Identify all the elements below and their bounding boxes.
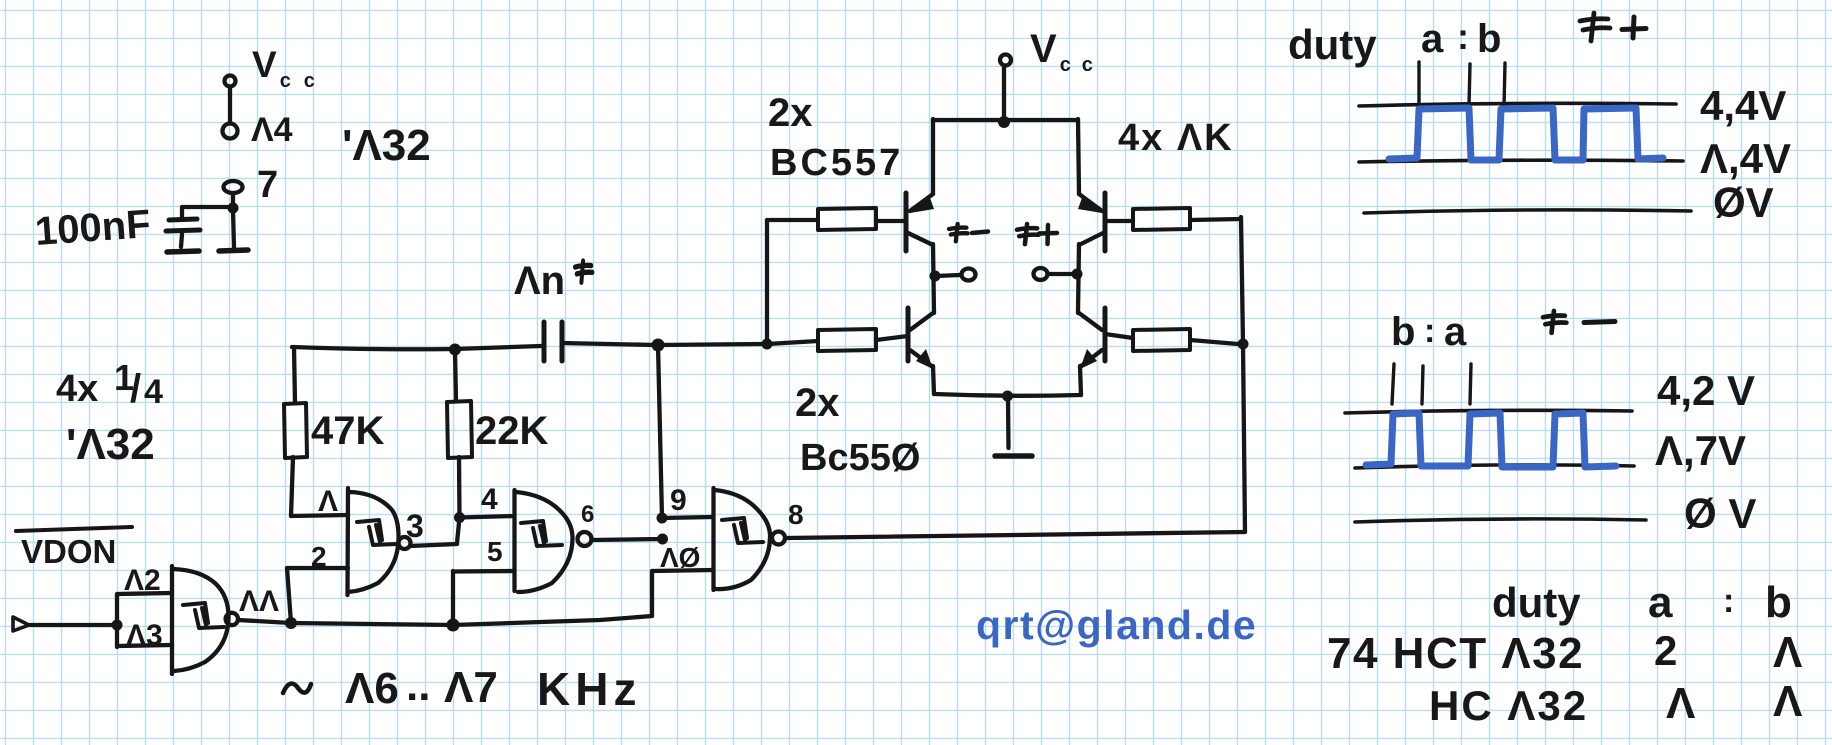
- Q2 emitter: [1079, 194, 1102, 211]
- Q1 emitter: [910, 194, 933, 211]
- svg-text:ΛØ: ΛØ: [660, 542, 700, 573]
- svg-text:KHz: KHz: [537, 663, 641, 715]
- junction dot Vcc rail: [998, 116, 1010, 128]
- ground under C1: [167, 251, 199, 252]
- svg-text:5: 5: [487, 536, 503, 567]
- resistor R2 22K top wire: [455, 350, 456, 401]
- resistor R5 1K body top-right: [1133, 208, 1190, 230]
- right collector vertical: [1078, 244, 1079, 313]
- capacitor C1 bottom stub: [181, 234, 182, 247]
- wire pin10 vertical: [650, 571, 654, 616]
- wire node right to output stage bases: [658, 344, 767, 345]
- svg-text:BC557: BC557: [770, 142, 903, 184]
- svg-text:Ø V: Ø V: [1684, 490, 1756, 537]
- R3 left wire: [767, 218, 818, 222]
- wire Vcc to pin 14: [228, 87, 232, 123]
- svg-text:6: 6: [581, 501, 594, 528]
- junction dot gate2 out node: [657, 534, 668, 545]
- svg-text:3: 3: [406, 508, 424, 544]
- svg-text:b: b: [1477, 17, 1501, 61]
- Q4 base wire: [1105, 334, 1133, 338]
- gate U1a hysteresis mark: [357, 520, 398, 545]
- wire gate1 output to node: [410, 544, 457, 546]
- transistor Q2 BC557 right base bar: [1103, 193, 1108, 251]
- Q3 emitter: [910, 350, 933, 367]
- wire right bases vertical: [1241, 217, 1245, 532]
- Q3 base wire: [876, 336, 908, 340]
- junction dot pin9 node: [657, 513, 668, 524]
- resistor R1 bottom wire: [291, 457, 293, 516]
- top supply rail: [933, 118, 1078, 122]
- svg-text:Λ3: Λ3: [126, 619, 163, 652]
- gate U1b NAND body: [515, 490, 573, 592]
- gate U1d input tie rectangle pins 12 13: [117, 593, 172, 647]
- wire pin 4: [459, 516, 514, 518]
- F- tap wire: [936, 275, 960, 276]
- wire pin7 to junction: [231, 194, 235, 205]
- resistor R3 1K body top-left: [818, 208, 876, 230]
- svg-text:Λ6: Λ6: [345, 664, 399, 713]
- svg-text:2x: 2x: [795, 381, 840, 425]
- Q4 emitter: [1080, 350, 1102, 367]
- svg-text:'Λ32: 'Λ32: [342, 121, 431, 170]
- value label F of 1nF: [575, 261, 592, 282]
- pin 14 terminal: [223, 124, 238, 139]
- transistor Q1 BC557 left base bar: [904, 193, 909, 251]
- node label F+ plus: [1039, 225, 1057, 244]
- R6 right wire: [1190, 340, 1238, 344]
- F- terminal: [962, 269, 976, 281]
- wire pin 8 to right resistor pair: [786, 532, 1245, 538]
- svg-text:Λ: Λ: [1773, 677, 1803, 726]
- wire pin2 vertical: [287, 568, 291, 623]
- svg-text:4,4V: 4,4V: [1700, 82, 1786, 129]
- junction dot bottom rail: [1002, 391, 1013, 402]
- node label F+ glyph: [1017, 224, 1039, 244]
- Q2 collector: [1079, 233, 1103, 245]
- svg-text:Λ2: Λ2: [124, 564, 161, 597]
- wire pin 1: [291, 515, 348, 516]
- capacitor C2 1nF plates: [544, 322, 562, 361]
- svg-text:100nF: 100nF: [34, 202, 152, 254]
- svg-text::: :: [1457, 16, 1469, 57]
- gate U1a output bubble pin 3: [399, 537, 411, 549]
- F+ terminal: [1034, 268, 1048, 280]
- junction dot pin7 node: [228, 203, 239, 214]
- wire bus VDON output to pin2 and pin5 verticals: [238, 616, 652, 625]
- Q2 base wire: [1105, 219, 1133, 223]
- svg-text:47K: 47K: [311, 409, 384, 453]
- svg-text:4x ΛK: 4x ΛK: [1118, 117, 1234, 159]
- tilde of frequency note: [283, 684, 311, 693]
- svg-text:..: ..: [406, 661, 430, 710]
- gate U1d hysteresis mark: [183, 603, 224, 628]
- svg-text:duty: duty: [1288, 21, 1377, 68]
- waveform 2 minus sign: [1584, 322, 1615, 323]
- ground bar output stage: [995, 453, 1032, 459]
- svg-text:4: 4: [481, 483, 498, 516]
- gate U1a NAND body: [348, 488, 399, 595]
- resistor R1 47K top wire: [294, 347, 295, 403]
- node label F- glyph: [949, 224, 968, 241]
- svg-text:7: 7: [257, 164, 278, 206]
- right emitter vertical: [1080, 366, 1081, 395]
- gate U1b hysteresis mark: [521, 521, 562, 546]
- svg-text:22K: 22K: [475, 409, 548, 453]
- left bases vertical: [765, 220, 769, 344]
- wire Vcc stub: [1002, 66, 1006, 120]
- svg-text:4: 4: [144, 373, 163, 411]
- Q2 arrow: [1078, 195, 1102, 213]
- svg-text:Λn: Λn: [514, 259, 565, 303]
- waveform 1 level line 0V: [1364, 210, 1691, 213]
- bottom rail: [934, 394, 1081, 396]
- svg-text:4,2 V: 4,2 V: [1657, 367, 1755, 414]
- Q4 arrow: [1080, 349, 1097, 369]
- wire C2 right to node: [562, 343, 655, 345]
- junction dot VDON tie: [112, 620, 123, 631]
- gate U1c NAND body: [714, 488, 771, 590]
- left emitter vertical: [933, 366, 934, 394]
- resistor R1 47K body: [284, 403, 307, 458]
- rail left corner down: [931, 119, 935, 194]
- resistor R4 1K body bottom-left: [818, 329, 876, 351]
- pin 7 terminal: [224, 181, 243, 193]
- junction dot cap right node: [652, 339, 665, 352]
- Q3 collector: [910, 313, 933, 330]
- Q1 base wire: [876, 219, 906, 223]
- svg-text:/: /: [130, 367, 141, 411]
- svg-text:a: a: [1421, 17, 1444, 61]
- ground stem: [1006, 397, 1011, 448]
- svg-text:2: 2: [1654, 627, 1677, 674]
- waveform 2 tick marks: [1392, 364, 1471, 404]
- waveform 2 F- glyph: [1543, 311, 1566, 333]
- svg-text:Λ4: Λ4: [251, 111, 293, 149]
- waveform 2 level line 4.2V: [1345, 410, 1632, 413]
- R4 left wire: [767, 341, 818, 344]
- svg-text:qrt@gland.de: qrt@gland.de: [976, 602, 1257, 648]
- waveform 1 level line 1.4V: [1359, 160, 1683, 162]
- junction dot left bases: [762, 339, 773, 350]
- Vcc terminal top-left: [225, 76, 236, 87]
- svg-text:HC Λ32: HC Λ32: [1429, 682, 1588, 729]
- wire node down to pin 9: [658, 345, 662, 518]
- svg-text:Λ: Λ: [318, 485, 338, 518]
- svg-text:8: 8: [788, 499, 804, 530]
- svg-text:Bc55Ø: Bc55Ø: [800, 437, 920, 479]
- waveform 2 blue trace: [1366, 413, 1616, 467]
- wire gate2 output to pin9 node: [592, 539, 663, 540]
- svg-text::: :: [1723, 582, 1734, 620]
- Q1 arrow: [910, 195, 934, 213]
- waveform 2 level line 0V: [1355, 519, 1646, 522]
- svg-text:a: a: [1444, 310, 1467, 354]
- F+ tap wire: [1049, 272, 1074, 276]
- wire input to junction: [29, 623, 114, 627]
- waveform 1 F+ glyph: [1580, 13, 1610, 41]
- ground under pin 7: [219, 250, 248, 251]
- svg-text:Λ,7V: Λ,7V: [1655, 427, 1746, 474]
- svg-text:VDON: VDON: [21, 533, 116, 570]
- svg-text:2: 2: [311, 541, 327, 572]
- wire pin 5: [453, 569, 514, 574]
- capacitor C1 100nF top stub: [180, 208, 184, 217]
- junction dot 22K top: [449, 344, 461, 356]
- svg-text:4x: 4x: [56, 368, 98, 410]
- svg-text:'Λ32: 'Λ32: [66, 420, 155, 469]
- svg-text:Λ: Λ: [1666, 679, 1696, 728]
- junction dot F+ tap: [1072, 269, 1083, 280]
- Q4 collector: [1079, 313, 1102, 330]
- svg-text:ΛΛ: ΛΛ: [239, 585, 279, 618]
- wire junction to capacitor C1: [182, 205, 228, 209]
- gate U1c hysteresis mark: [722, 518, 763, 543]
- Vcc terminal output stage: [1000, 55, 1011, 66]
- wire pin 9: [662, 517, 713, 518]
- svg-text:Λ7: Λ7: [444, 663, 498, 712]
- resistor R2 bottom wire to node pin4: [457, 457, 460, 543]
- junction dot right bases: [1238, 339, 1249, 350]
- overline of VDON: [16, 527, 132, 531]
- svg-text:74 HCT Λ32: 74 HCT Λ32: [1327, 629, 1584, 678]
- svg-text:b: b: [1765, 578, 1792, 627]
- svg-text:b: b: [1391, 310, 1415, 354]
- junction dot bus pin5: [447, 619, 460, 632]
- wire pin 10: [652, 570, 713, 571]
- svg-text:Λ: Λ: [1773, 628, 1803, 677]
- wire pin 2: [287, 566, 348, 570]
- waveform 1 tick marks: [1419, 62, 1505, 107]
- junction dot bus pin2: [285, 617, 297, 629]
- wire junction down: [233, 210, 234, 248]
- svg-text:2x: 2x: [768, 91, 813, 135]
- rail right corner down: [1078, 119, 1079, 194]
- Q3 arrow: [916, 349, 933, 369]
- junction dot pin4 node: [454, 512, 465, 523]
- svg-text:a: a: [1648, 578, 1673, 627]
- gate U1c output bubble pin 8: [772, 532, 785, 545]
- transistor Q4 BC550 right base bar: [1103, 308, 1108, 361]
- svg-text:ØV: ØV: [1713, 179, 1774, 226]
- Q1 collector: [908, 233, 933, 245]
- svg-text:9: 9: [670, 484, 687, 517]
- transistor Q3 BC550 left base bar: [906, 308, 911, 361]
- waveform 1 blue trace: [1389, 108, 1663, 160]
- left collector vertical: [933, 244, 934, 313]
- gate U1d output bubble pin 11: [226, 613, 238, 625]
- svg-text:duty: duty: [1492, 579, 1581, 626]
- wire pin5 vertical: [451, 571, 455, 625]
- resistor R2 22K body: [447, 401, 472, 458]
- resistor R6 1K body bottom-right: [1133, 329, 1190, 351]
- junction dot F- tap: [930, 271, 941, 282]
- R5 right wire: [1190, 219, 1241, 220]
- gate U1b output bubble pin 6: [578, 532, 592, 546]
- waveform 1 plus sign: [1622, 17, 1646, 38]
- feedback wire top left: [292, 346, 541, 349]
- svg-text::: :: [1424, 312, 1435, 350]
- input terminal triangle: [13, 617, 29, 631]
- waveform 2 level line 1.7V: [1355, 465, 1634, 468]
- gate U1d NAND body: [172, 566, 229, 674]
- svg-text:Λ,4V: Λ,4V: [1700, 135, 1791, 182]
- capacitor C1 plates: [166, 219, 200, 231]
- waveform 1 level line 4.4V: [1359, 103, 1676, 106]
- node label F- minus: [972, 232, 988, 234]
